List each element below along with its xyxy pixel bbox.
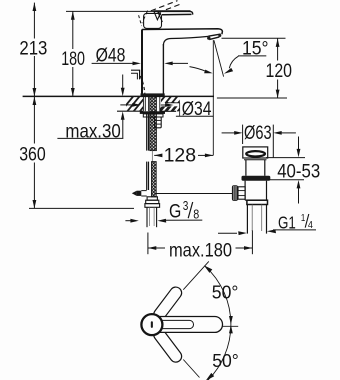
vertical stream line xyxy=(212,40,214,155)
G3/8 pipe xyxy=(146,207,148,227)
Ø48 right arrow xyxy=(172,62,189,64)
spout top edge xyxy=(142,29,223,35)
angle arrow left tail xyxy=(190,67,206,72)
spout tip extension line xyxy=(222,37,286,39)
body left edge xyxy=(141,30,143,96)
dim 213 line xyxy=(33,3,35,39)
svg-text:1: 1 xyxy=(301,212,306,224)
svg-text:213: 213 xyxy=(19,37,47,59)
slanted stream line xyxy=(214,40,224,76)
drain flange xyxy=(242,176,271,181)
aerator top line xyxy=(208,34,220,36)
upper rotated lever xyxy=(151,285,183,323)
svg-text:180: 180 xyxy=(61,48,85,70)
arc top arrowhead xyxy=(204,265,212,273)
svg-text:50°: 50° xyxy=(212,351,239,371)
G3/8 nut xyxy=(147,197,157,200)
dim 360 line xyxy=(33,96,35,143)
body right edge xyxy=(162,44,164,96)
angle arrowhead pointing left at slanted line xyxy=(224,68,233,74)
tailpipe xyxy=(246,205,248,234)
valve connector xyxy=(238,187,245,199)
dim 120 line xyxy=(277,38,279,60)
svg-text:max.30: max.30 xyxy=(65,121,121,143)
15deg underline xyxy=(238,55,266,57)
pivot slot xyxy=(151,321,153,328)
arc bottom arrowhead xyxy=(206,373,215,380)
aerator left cap xyxy=(207,36,210,39)
washer bar under counter xyxy=(140,111,165,114)
G3/8 fraction slash xyxy=(188,202,193,218)
lever inner detail xyxy=(158,320,194,328)
base plate bar xyxy=(141,93,165,96)
counter extension line right xyxy=(217,97,287,99)
mounting stud xyxy=(155,117,162,128)
threaded hose lower xyxy=(152,162,157,197)
svg-text:3: 3 xyxy=(183,199,189,213)
counter bottom line left xyxy=(117,110,143,112)
max.30 upper arrow xyxy=(122,75,124,90)
lower rotated lever xyxy=(151,327,183,365)
dashed tilted cap line b xyxy=(158,13,162,22)
horizontal line to drain valve xyxy=(156,193,233,195)
dashed raised lever edge 2 xyxy=(158,4,182,13)
svg-text:max.180: max.180 xyxy=(169,240,232,262)
lower extension line xyxy=(183,360,199,378)
arc mid arrowheads xyxy=(229,316,233,324)
drain body xyxy=(244,181,246,201)
svg-text:50°: 50° xyxy=(212,282,239,302)
extension line for 180 xyxy=(66,10,154,12)
horizontal lever xyxy=(150,317,223,333)
label notch step lines xyxy=(165,102,180,104)
G1 1/4 fraction slash xyxy=(305,214,309,228)
counter bottom line mid xyxy=(160,110,176,112)
counter hole left edge xyxy=(142,96,144,111)
cartridge cap xyxy=(144,13,162,28)
lever right end hook xyxy=(190,11,193,14)
hose break centerline xyxy=(151,151,153,162)
angle arrowhead pointing right at vertical line xyxy=(204,70,213,74)
svg-text:40-53: 40-53 xyxy=(277,161,320,183)
aerator right cap xyxy=(218,34,221,37)
dashed tilted cap line a xyxy=(142,11,148,24)
max.30 lower arrow + leader xyxy=(121,111,125,119)
pivot circle xyxy=(141,314,162,335)
drain neck xyxy=(245,160,247,176)
rotation arc xyxy=(205,266,231,380)
body bottom xyxy=(141,94,165,96)
locknut xyxy=(247,200,268,204)
svg-text:360: 360 xyxy=(19,143,46,165)
plug ellipse xyxy=(246,151,265,156)
svg-text:Ø48: Ø48 xyxy=(96,45,126,67)
lever bottom edge xyxy=(162,13,192,15)
Ø34 right arrow xyxy=(161,104,166,106)
hose smooth line lower xyxy=(146,162,148,190)
Ø34 underline xyxy=(176,115,214,117)
valve knob xyxy=(232,185,238,201)
counter hatch xyxy=(120,96,197,118)
lever top edge xyxy=(154,10,191,12)
dashed tilted cap line c xyxy=(139,15,142,26)
mounting band xyxy=(143,114,163,117)
svg-text:Ø63: Ø63 xyxy=(244,122,272,144)
svg-text:4: 4 xyxy=(308,219,313,231)
leader from 15deg xyxy=(229,56,238,68)
second hose end spike xyxy=(132,191,137,196)
svg-text:120: 120 xyxy=(266,60,293,82)
svg-text:8: 8 xyxy=(193,207,199,221)
dashed raised lever edge 1 xyxy=(151,1,178,11)
svg-text:15°: 15° xyxy=(242,37,269,59)
spout underside xyxy=(163,36,208,45)
hose smooth line upper xyxy=(146,114,148,151)
upper extension line xyxy=(183,261,209,289)
svg-text:128: 128 xyxy=(164,145,197,167)
hidden hose dashed line xyxy=(140,76,145,94)
centerline right xyxy=(222,325,238,327)
counter top line xyxy=(23,95,214,97)
counter hole right edge xyxy=(159,96,161,111)
dim 180 line xyxy=(72,11,74,49)
Ø34 left arrow xyxy=(120,104,133,106)
svg-text:G1: G1 xyxy=(278,212,296,232)
Ø34 white box xyxy=(180,97,213,115)
svg-text:G: G xyxy=(169,201,181,223)
lever V-notch xyxy=(154,12,161,20)
hose clip tab xyxy=(131,70,140,79)
plug cup xyxy=(243,147,268,158)
svg-text:Ø34: Ø34 xyxy=(182,98,212,120)
cup lip xyxy=(244,159,267,161)
threaded shank upper xyxy=(150,97,157,151)
360 bottom extension line xyxy=(29,207,134,209)
shank smooth tube lines xyxy=(144,97,146,111)
aerator bottom line xyxy=(209,37,219,40)
